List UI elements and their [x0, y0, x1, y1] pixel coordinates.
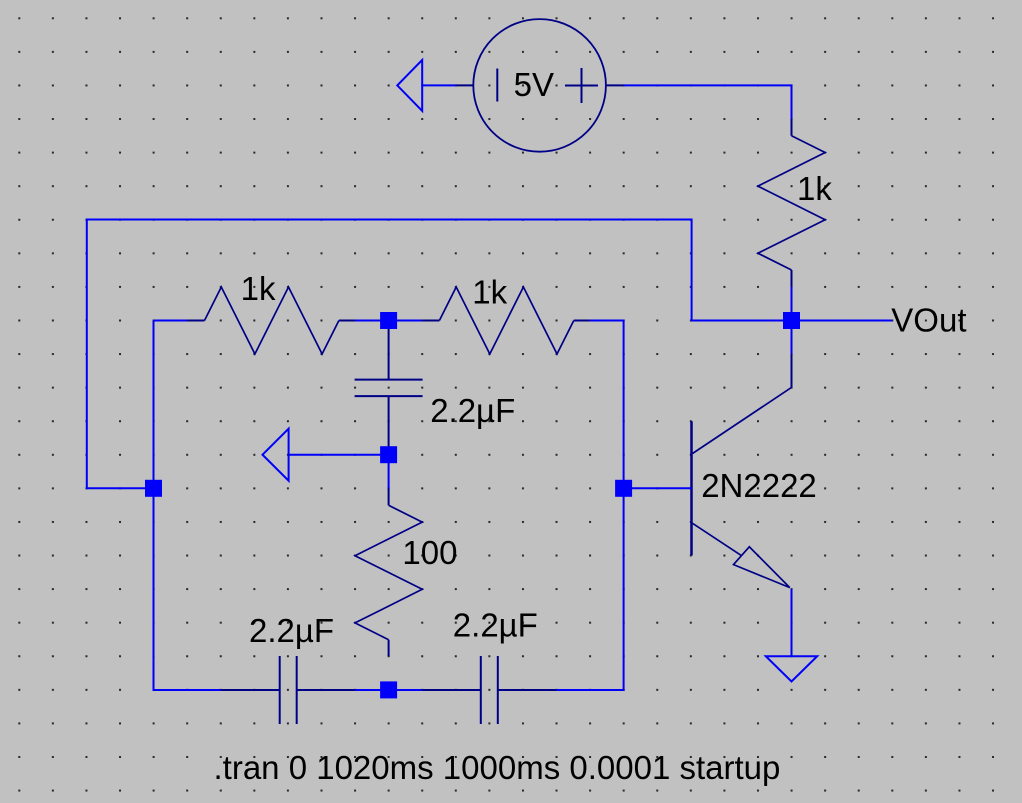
svg-text:5V: 5V — [514, 66, 554, 103]
svg-text:2.2µF: 2.2µF — [430, 392, 515, 429]
svg-text:.tran 0 1020ms 1000ms 0.0001 s: .tran 0 1020ms 1000ms 0.0001 startup — [214, 749, 781, 786]
svg-text:100: 100 — [402, 534, 457, 571]
svg-text:2.2µF: 2.2µF — [453, 607, 538, 644]
svg-text:2N2222: 2N2222 — [701, 467, 817, 504]
svg-text:1k: 1k — [797, 170, 832, 207]
svg-text:2.2µF: 2.2µF — [249, 612, 334, 649]
svg-text:VOut: VOut — [891, 301, 966, 338]
svg-text:1k: 1k — [241, 270, 276, 307]
svg-text:1k: 1k — [472, 274, 507, 311]
